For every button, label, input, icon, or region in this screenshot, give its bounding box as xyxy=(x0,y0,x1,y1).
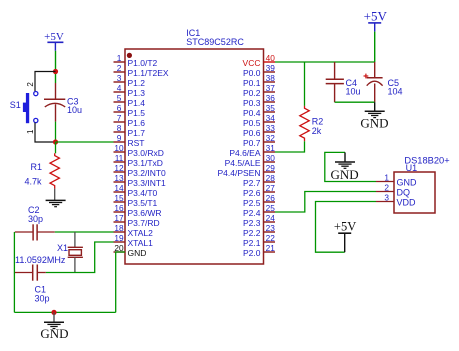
power +5V (top left) xyxy=(44,31,64,51)
svg-text:P0.5: P0.5 xyxy=(243,118,261,128)
svg-text:P3.7/RD: P3.7/RD xyxy=(128,218,160,228)
svg-text:P1.6: P1.6 xyxy=(128,118,146,128)
svg-text:10u: 10u xyxy=(346,87,361,97)
svg-text:32: 32 xyxy=(266,133,276,143)
svg-text:P0.1: P0.1 xyxy=(243,78,261,88)
wire IC pin 20 to ground rail xyxy=(116,252,125,312)
capacitor C1 xyxy=(15,265,50,304)
svg-text:13: 13 xyxy=(114,173,124,183)
svg-text:1: 1 xyxy=(384,172,389,182)
svg-text:P0.6: P0.6 xyxy=(243,128,261,138)
crystal X1 xyxy=(15,232,83,273)
IC1 pin 21 (P2.0) xyxy=(243,243,275,258)
svg-text:GND: GND xyxy=(40,326,68,341)
svg-text:VCC: VCC xyxy=(243,58,261,68)
U1 pin 3 (VDD) xyxy=(376,192,416,207)
svg-text:P3.5/T1: P3.5/T1 xyxy=(128,198,158,208)
svg-text:37: 37 xyxy=(266,83,276,93)
svg-text:39: 39 xyxy=(266,63,276,73)
svg-text:11.0592MHz: 11.0592MHz xyxy=(15,255,66,265)
IC1 pin 1 orientation dot xyxy=(127,53,132,58)
svg-text:VDD: VDD xyxy=(397,197,417,207)
wire ground leg (left vertical) xyxy=(13,232,15,312)
ground below R1 xyxy=(46,199,66,201)
svg-text:P1.7: P1.7 xyxy=(128,128,146,138)
svg-text:30: 30 xyxy=(266,153,276,163)
svg-text:24: 24 xyxy=(266,213,276,223)
IC1 pin 35 (P0.4) xyxy=(243,103,275,118)
resistor R2 xyxy=(300,106,324,141)
svg-text:15: 15 xyxy=(114,193,124,203)
power +5V (top right) xyxy=(364,9,388,32)
U1 pin 2 (DQ) xyxy=(376,182,410,197)
svg-text:17: 17 xyxy=(114,213,124,223)
wire bottom ground rail xyxy=(14,311,115,313)
svg-text:GND: GND xyxy=(397,177,418,187)
svg-text:P2.6: P2.6 xyxy=(243,188,261,198)
svg-text:2: 2 xyxy=(26,82,35,87)
IC1 pin 32 (P0.7) xyxy=(243,133,275,148)
svg-text:7: 7 xyxy=(117,113,122,123)
junction dot at bottom ground xyxy=(51,310,56,315)
svg-text:P2.4: P2.4 xyxy=(243,208,261,218)
svg-text:2k: 2k xyxy=(312,126,322,136)
svg-text:P1.5: P1.5 xyxy=(128,108,146,118)
svg-text:25: 25 xyxy=(266,203,276,213)
svg-text:23: 23 xyxy=(266,223,276,233)
IC1 pin 37 (P0.2) xyxy=(243,83,275,98)
svg-text:P1.1/T2EX: P1.1/T2EX xyxy=(128,68,169,78)
svg-text:P3.2/INT0: P3.2/INT0 xyxy=(128,168,167,178)
svg-text:4.7k: 4.7k xyxy=(25,177,43,187)
IC1 pin 33 (P0.6) xyxy=(243,123,275,138)
svg-text:6: 6 xyxy=(117,103,122,113)
svg-text:P4.4/PSEN: P4.4/PSEN xyxy=(218,168,261,178)
svg-text:P3.6/WR: P3.6/WR xyxy=(128,208,162,218)
svg-text:P3.0/RxD: P3.0/RxD xyxy=(128,148,164,158)
svg-text:8: 8 xyxy=(117,123,122,133)
IC1 pin 13 (P3.3/INT1) xyxy=(114,173,167,188)
svg-text:P0.4: P0.4 xyxy=(243,108,261,118)
wire XTAL2 net (pin 18) xyxy=(55,231,114,233)
svg-text:P3.3/INT1: P3.3/INT1 xyxy=(128,178,167,188)
svg-text:2: 2 xyxy=(384,182,389,192)
wire junction to S1 pin 2 xyxy=(35,72,56,92)
svg-text:P1.4: P1.4 xyxy=(128,98,146,108)
IC1 pin 34 (P0.5) xyxy=(243,113,275,128)
svg-text:16: 16 xyxy=(114,203,124,213)
svg-text:21: 21 xyxy=(266,243,276,253)
ground at bottom left xyxy=(40,312,68,340)
wire XTAL1 net (pin 19) xyxy=(46,242,114,273)
temperature sensor U1 DS18B20 xyxy=(394,156,450,213)
svg-text:GND: GND xyxy=(331,167,359,182)
wire U1 VDD to +5V xyxy=(316,202,377,253)
IC1 pin 26 (P2.5) xyxy=(243,193,275,208)
svg-text:P3.1/TxD: P3.1/TxD xyxy=(128,158,163,168)
capacitor C2 xyxy=(15,205,55,240)
IC1 pin 10 (P3.0/RxD) xyxy=(114,143,164,158)
wire U1 DQ to IC pin 25 xyxy=(275,192,376,213)
svg-text:30p: 30p xyxy=(35,294,50,304)
svg-text:36: 36 xyxy=(266,93,276,103)
svg-text:29: 29 xyxy=(266,163,276,173)
wire +5V to C3/S1 junction xyxy=(55,51,57,83)
IC1 pin 7 (P1.6) xyxy=(114,113,146,128)
wire VCC rail from pin 40 xyxy=(275,61,375,63)
IC1 pin 5 (P1.4) xyxy=(114,93,146,108)
wire R2 to IC pin 31 xyxy=(275,141,305,152)
junction dot at RST node xyxy=(53,139,58,144)
wire RST node to IC pin 9 xyxy=(56,141,114,143)
IC1 pin 39 (P0.0) xyxy=(243,63,275,78)
IC1 pin 1 (P1.0/T2) xyxy=(114,53,158,68)
svg-text:10u: 10u xyxy=(67,105,82,115)
IC1 pin 22 (P2.1) xyxy=(243,233,275,248)
svg-text:P1.2: P1.2 xyxy=(128,78,146,88)
IC1 pin 17 (P3.7/RD) xyxy=(114,213,160,228)
svg-text:P3.4/T0: P3.4/T0 xyxy=(128,188,158,198)
IC1 pin 30 (P4.5/ALE) xyxy=(225,153,276,168)
IC1 pin 25 (P2.4) xyxy=(243,203,275,218)
svg-text:XTAL2: XTAL2 xyxy=(128,228,154,238)
svg-text:+5V: +5V xyxy=(44,31,64,43)
IC1 pin 14 (P3.4/T0) xyxy=(114,183,158,198)
IC1 pin 9 (RST) xyxy=(114,133,145,148)
svg-text:P0.0: P0.0 xyxy=(243,68,261,78)
lead R1 to ground xyxy=(54,189,56,201)
capacitor C5 xyxy=(364,62,403,102)
svg-text:34: 34 xyxy=(266,113,276,123)
svg-text:P4.5/ALE: P4.5/ALE xyxy=(225,158,261,168)
svg-text:28: 28 xyxy=(266,173,276,183)
IC1 pin 19 (XTAL1) xyxy=(114,233,154,248)
IC1 pin 18 (XTAL2) xyxy=(114,223,154,238)
svg-text:P2.2: P2.2 xyxy=(243,228,261,238)
svg-text:31: 31 xyxy=(266,143,276,153)
svg-text:26: 26 xyxy=(266,193,276,203)
svg-text:P2.5: P2.5 xyxy=(243,198,261,208)
svg-text:2: 2 xyxy=(117,63,122,73)
svg-text:1: 1 xyxy=(26,129,35,134)
svg-text:GND: GND xyxy=(128,248,147,258)
svg-text:4: 4 xyxy=(117,83,122,93)
switch S1 xyxy=(10,82,38,134)
svg-text:P2.7: P2.7 xyxy=(243,178,261,188)
svg-text:3: 3 xyxy=(384,192,389,202)
svg-text:22: 22 xyxy=(266,233,276,243)
svg-text:P2.0: P2.0 xyxy=(243,248,261,258)
svg-text:S1: S1 xyxy=(10,100,21,110)
IC1 pin 23 (P2.2) xyxy=(243,223,275,238)
IC1 pin 6 (P1.5) xyxy=(114,103,146,118)
svg-text:40: 40 xyxy=(266,53,276,63)
svg-text:30p: 30p xyxy=(28,214,43,224)
svg-text:18: 18 xyxy=(114,223,124,233)
IC1 pin 28 (P2.7) xyxy=(243,173,275,188)
svg-text:+5V: +5V xyxy=(364,9,388,24)
IC1 pin 2 (P1.1/T2EX) xyxy=(114,63,169,78)
svg-text:P0.7: P0.7 xyxy=(243,138,261,148)
IC1 pin 4 (P1.3) xyxy=(114,83,146,98)
IC1 pin 11 (P3.1/TxD) xyxy=(114,153,163,168)
svg-text:12: 12 xyxy=(114,163,124,173)
svg-text:33: 33 xyxy=(266,123,276,133)
microcontroller IC1 STC89C52RC body xyxy=(125,49,264,264)
svg-text:R1: R1 xyxy=(31,162,43,172)
svg-text:P2.3: P2.3 xyxy=(243,218,261,228)
svg-text:3: 3 xyxy=(117,73,122,83)
svg-text:RST: RST xyxy=(128,138,145,148)
capacitor C4 xyxy=(326,62,361,102)
IC1 pin 38 (P0.1) xyxy=(243,73,275,88)
IC1 pin 29 (P4.4/PSEN) xyxy=(218,163,276,178)
svg-text:1: 1 xyxy=(117,53,122,63)
svg-text:27: 27 xyxy=(266,183,276,193)
IC1 pin 12 (P3.2/INT0) xyxy=(114,163,167,178)
svg-text:P1.3: P1.3 xyxy=(128,88,146,98)
svg-text:P4.6/EA: P4.6/EA xyxy=(229,148,261,158)
IC1 pin 36 (P0.3) xyxy=(243,93,275,108)
svg-text:STC89C52RC: STC89C52RC xyxy=(186,37,244,47)
svg-text:19: 19 xyxy=(114,233,124,243)
resistor R1 xyxy=(25,153,60,188)
wire C3 to RST junction xyxy=(55,122,57,142)
IC1 pin 31 (P4.6/EA) xyxy=(229,143,275,158)
IC1 pin 3 (P1.2) xyxy=(114,73,146,88)
svg-text:X1: X1 xyxy=(57,243,68,253)
ground near U1 xyxy=(331,152,359,182)
svg-text:5: 5 xyxy=(117,93,122,103)
svg-text:11: 11 xyxy=(115,153,124,163)
IC1 pin 16 (P3.6/WR) xyxy=(114,203,162,218)
svg-text:10: 10 xyxy=(114,143,124,153)
svg-text:38: 38 xyxy=(266,73,276,83)
svg-text:104: 104 xyxy=(388,87,403,97)
IC1 pin 27 (P2.6) xyxy=(243,183,275,198)
svg-text:+5V: +5V xyxy=(334,220,356,234)
svg-text:P0.3: P0.3 xyxy=(243,98,261,108)
wire S1 pin 1 to RST junction xyxy=(35,123,56,142)
svg-text:GND: GND xyxy=(360,116,388,131)
svg-text:P1.0/T2: P1.0/T2 xyxy=(128,58,158,68)
IC1 pin 8 (P1.7) xyxy=(114,123,146,138)
svg-text:9: 9 xyxy=(117,133,122,143)
ground below C5 xyxy=(360,102,388,130)
IC1 pin 24 (P2.3) xyxy=(243,213,275,228)
wire C4 to C5 ground rail xyxy=(335,101,375,103)
IC1 pin 40 (VCC) xyxy=(243,53,276,68)
junction dot at S1 top branch xyxy=(53,69,58,74)
IC1 pin 15 (P3.5/T1) xyxy=(114,193,158,208)
IC1 pin 20 (GND) xyxy=(114,243,147,258)
capacitor C3 xyxy=(44,83,82,122)
svg-text:35: 35 xyxy=(266,103,276,113)
wire +5V to VCC rail xyxy=(374,32,376,62)
U1 pin 1 (GND) xyxy=(376,172,417,187)
svg-text:P0.2: P0.2 xyxy=(243,88,261,98)
svg-text:14: 14 xyxy=(114,183,124,193)
power +5V (near U1) xyxy=(334,220,356,253)
svg-text:P2.1: P2.1 xyxy=(243,238,261,248)
svg-text:XTAL1: XTAL1 xyxy=(128,238,154,248)
wire VCC rail to R2 xyxy=(304,62,306,106)
svg-text:DQ: DQ xyxy=(397,187,411,197)
wire RST node to R1 xyxy=(55,142,57,153)
wire U1 GND to ground xyxy=(325,152,376,181)
